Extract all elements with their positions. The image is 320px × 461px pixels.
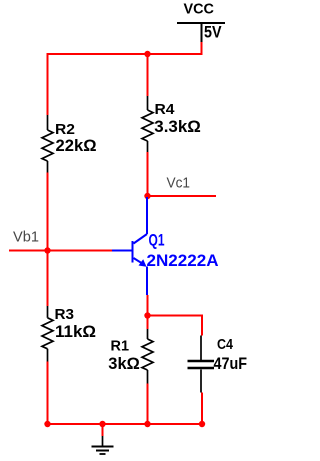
svg-text:Vc1: Vc1 — [167, 176, 191, 192]
resistor R1 — [142, 329, 153, 384]
node: R1 bottom junction — [144, 421, 150, 427]
wire: bottom rail — [48, 423, 203, 425]
power symbol VCC — [177, 23, 225, 42]
svg-text:Q1: Q1 — [149, 231, 165, 250]
svg-text:Vb1: Vb1 — [13, 229, 39, 246]
wire: Vc1 stub — [148, 195, 217, 197]
svg-text:R4: R4 — [155, 102, 175, 118]
wire: C4 rail down — [201, 315, 203, 336]
resistor R4 — [142, 96, 153, 152]
wire: mid rail top (junction to R4) — [147, 54, 149, 96]
svg-text:R3: R3 — [55, 307, 75, 323]
svg-text:C4: C4 — [217, 337, 233, 353]
wire: R4 bottom to Vc1 junction — [147, 152, 149, 196]
transistor Q1 emitter arrow — [139, 259, 147, 267]
wire: top rail — [48, 53, 203, 55]
svg-text:VCC: VCC — [184, 2, 215, 18]
svg-text:2N2222A: 2N2222A — [147, 251, 219, 270]
svg-text:11kΩ: 11kΩ — [55, 323, 96, 341]
node: bottom-right corner junction — [199, 421, 205, 427]
node: emitter junction — [144, 312, 150, 318]
svg-text:5V: 5V — [204, 23, 222, 42]
node: top junction — [144, 51, 150, 57]
wire: R1 bottom red — [147, 384, 149, 425]
svg-text:R2: R2 — [55, 122, 75, 138]
wire: R1 top red — [147, 316, 149, 330]
wire: C4 bottom red — [201, 393, 203, 425]
svg-text:3.3kΩ: 3.3kΩ — [154, 118, 201, 136]
wire: junction to C4 rail — [148, 315, 203, 317]
svg-text:22kΩ: 22kΩ — [56, 137, 97, 155]
transistor Q1 — [112, 197, 147, 295]
node: Vc1 junction — [144, 193, 150, 199]
capacitor C4 — [188, 336, 215, 393]
wire: left rail middle (R2 to R3) — [47, 173, 49, 307]
svg-text:R1: R1 — [111, 339, 130, 355]
resistor R3 — [42, 306, 53, 362]
node: ground junction — [99, 421, 105, 427]
wire: Vb1 stub — [9, 250, 112, 252]
wire: left rail upper (top to R2) — [47, 53, 49, 115]
resistor R2 — [42, 115, 53, 173]
svg-text:47uF: 47uF — [214, 355, 248, 373]
wire: emitter to junction — [147, 295, 149, 316]
wire: VCC stub red — [201, 42, 203, 53]
node: bottom-left corner junction — [44, 421, 50, 427]
ground — [92, 436, 114, 454]
wire: ground stub red — [102, 424, 104, 436]
node: Vb1 junction — [44, 247, 50, 253]
svg-text:3kΩ: 3kΩ — [108, 355, 140, 373]
wire: left rail lower (R3 to bottom) — [47, 362, 49, 425]
